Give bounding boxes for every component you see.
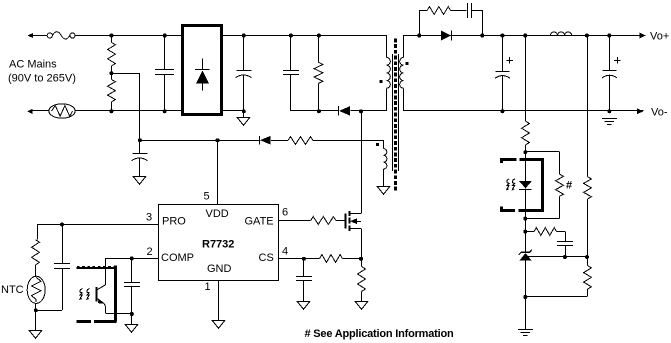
svg-text:5: 5 xyxy=(204,190,210,202)
svg-text:NTC: NTC xyxy=(1,284,24,296)
svg-text:Vo+: Vo+ xyxy=(650,31,669,43)
svg-text:R7732: R7732 xyxy=(202,238,234,250)
svg-text:VDD: VDD xyxy=(206,208,229,220)
svg-text:# See Application Information: # See Application Information xyxy=(305,328,455,340)
svg-text:CS: CS xyxy=(259,252,274,264)
svg-text:GND: GND xyxy=(207,263,232,275)
svg-text:2: 2 xyxy=(147,246,153,258)
svg-text:AC Mains: AC Mains xyxy=(9,59,57,71)
svg-text:4: 4 xyxy=(282,246,288,258)
svg-text:#: # xyxy=(566,180,572,192)
svg-text:COMP: COMP xyxy=(161,252,194,264)
svg-text:3: 3 xyxy=(146,211,152,223)
svg-text:6: 6 xyxy=(282,206,288,218)
svg-text:Vo-: Vo- xyxy=(651,106,668,118)
svg-text:1: 1 xyxy=(205,281,211,293)
svg-text:GATE: GATE xyxy=(245,215,274,227)
svg-text:PRO: PRO xyxy=(162,215,186,227)
svg-text:(90V to 265V): (90V to 265V) xyxy=(8,73,76,85)
